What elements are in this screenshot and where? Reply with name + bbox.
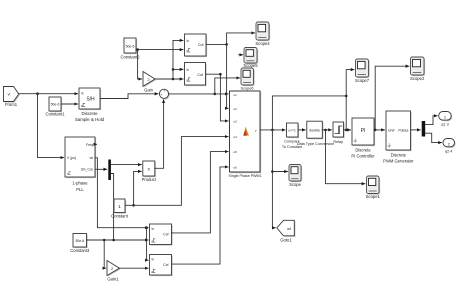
svg-text:Scope4: Scope4 bbox=[255, 41, 270, 46]
node junction at lower Cuf In level bbox=[172, 68, 175, 71]
node junction to Scope7 bbox=[345, 129, 348, 132]
wire upper Cuf out to Scope4 and down to port2 bbox=[206, 33, 255, 45]
svg-text:Pulses: Pulses bbox=[398, 128, 408, 132]
wire junction up to upper Cuf In bbox=[173, 40, 183, 79]
scope Scope2 bbox=[410, 57, 425, 81]
svg-text:Product: Product bbox=[142, 177, 157, 182]
scope Scope1 bbox=[366, 176, 381, 199]
subsystem Cu3 bbox=[150, 224, 173, 246]
svg-text:Data Type Conversion: Data Type Conversion bbox=[297, 142, 335, 146]
block Discrete PI Controller bbox=[351, 118, 375, 159]
subsystem Cuf lower bbox=[185, 63, 207, 87]
wire PLL Sin_Cos to Demux bbox=[95, 168, 107, 170]
wire Constant1 to S/H lower port bbox=[61, 103, 78, 105]
wire junction up to Product in2 bbox=[134, 171, 142, 205]
svg-text:Scope7: Scope7 bbox=[355, 78, 370, 83]
block Compare To Constant bbox=[282, 123, 303, 149]
svg-text:S/H: S/H bbox=[86, 97, 95, 103]
svg-text:Discrete: Discrete bbox=[391, 153, 407, 158]
outport q2 4 bbox=[443, 139, 456, 154]
svg-text:Cuf: Cuf bbox=[197, 73, 203, 77]
wire Constant out bbox=[125, 204, 134, 206]
svg-text:Constant3: Constant3 bbox=[70, 248, 90, 253]
svg-text:Gain1: Gain1 bbox=[107, 277, 119, 282]
svg-text:2: 2 bbox=[111, 267, 113, 271]
wire junction up to Scope7 bbox=[346, 70, 354, 130]
svg-text:u2: u2 bbox=[234, 107, 238, 111]
svg-text:Sin_Cos: Sin_Cos bbox=[81, 168, 93, 172]
svg-text:1-phase: 1-phase bbox=[72, 181, 88, 186]
node junction gain wire bbox=[172, 78, 175, 81]
svg-text:In: In bbox=[152, 258, 155, 262]
svg-text:From1: From1 bbox=[5, 102, 18, 107]
constant Constant (1) bbox=[111, 199, 129, 219]
wire Compare to Data Type Conversion bbox=[298, 129, 305, 131]
svg-text:Scope1: Scope1 bbox=[366, 194, 381, 199]
block Discrete PWM Generator bbox=[383, 111, 414, 164]
wire MATLAB Function out to Compare To Constant bbox=[260, 129, 285, 131]
wire Constant3 to Cu3 lower port bbox=[87, 239, 149, 241]
wire Relay to PI bbox=[344, 129, 351, 131]
svg-text:Constant: Constant bbox=[111, 214, 129, 219]
wire Demux out2 down bbox=[111, 174, 114, 240]
wire Gain1 to Cu4 lower port bbox=[120, 267, 149, 269]
node junction constant wire bbox=[132, 204, 135, 207]
svg-text:Discrete: Discrete bbox=[81, 111, 98, 116]
wire junction up to Scope6 bbox=[215, 78, 240, 94]
block 1-phase PLL bbox=[65, 137, 96, 192]
wire junction down to PLL input bbox=[38, 94, 64, 158]
wire stub PLL Freq out bbox=[95, 143, 97, 145]
svg-text:Scope2: Scope2 bbox=[410, 76, 425, 81]
svg-text:V (pu): V (pu) bbox=[67, 156, 76, 160]
wire Constant2 to upper Cuf block lower port bbox=[136, 49, 183, 51]
constant Constant1 bbox=[45, 97, 65, 117]
scope Scope mid bbox=[289, 165, 302, 187]
svg-text:Scope6: Scope6 bbox=[241, 86, 254, 90]
svg-text:Cuf: Cuf bbox=[198, 43, 204, 47]
svg-text:Scope: Scope bbox=[289, 182, 302, 187]
svg-text:1: 1 bbox=[118, 204, 121, 209]
svg-text:+: + bbox=[164, 89, 166, 93]
wire stub into Scope5 bbox=[239, 54, 243, 56]
svg-text:Cvf: Cvf bbox=[163, 232, 168, 236]
svg-text:In: In bbox=[152, 227, 155, 231]
wire From1 to S/H bbox=[19, 93, 78, 95]
node junction wt wire bbox=[145, 226, 148, 229]
node junction lower Cuf out bbox=[219, 73, 222, 76]
wire vertical bus x272 down to Goto1 bbox=[272, 130, 275, 228]
node junction scope tap bbox=[271, 170, 274, 173]
svg-text:Constant1: Constant1 bbox=[45, 112, 65, 117]
svg-text:Cvf: Cvf bbox=[163, 263, 168, 267]
wire Product out up to Sum bbox=[155, 100, 164, 169]
svg-text:+: + bbox=[160, 93, 162, 97]
sum Add bbox=[159, 89, 169, 99]
node junction on function output bbox=[271, 129, 274, 132]
svg-text:Single Phase PWM1: Single Phase PWM1 bbox=[229, 174, 262, 178]
MATLAB logo icon bbox=[243, 127, 249, 136]
wire junction down to Scope1 bbox=[326, 130, 365, 184]
svg-text:wt: wt bbox=[90, 156, 93, 160]
svg-text:Gain: Gain bbox=[144, 88, 154, 93]
svg-text:u3: u3 bbox=[234, 120, 238, 124]
wire Demux2 to Out2 bbox=[425, 133, 441, 142]
wire Demux out1 to Product bbox=[111, 164, 141, 166]
wire junction right and up to MATLAB Function port 4 bbox=[134, 137, 229, 206]
wire junction to Scope (mid) bbox=[272, 171, 287, 173]
svg-text:u1: u1 bbox=[234, 93, 238, 97]
wire junction down to Gain1 bbox=[104, 240, 105, 268]
gain Gain1 bbox=[107, 261, 121, 282]
outport q1 q3 bbox=[439, 112, 453, 127]
svg-text:50e-6: 50e-6 bbox=[75, 239, 84, 243]
svg-text:In: In bbox=[187, 39, 190, 43]
wire junction down to MATLAB Function port 2 bbox=[227, 44, 229, 108]
product Product bbox=[142, 161, 157, 182]
wire Cu4 out up to MATLAB Function port 6 bbox=[172, 167, 229, 264]
svg-text:u5: u5 bbox=[234, 150, 238, 154]
wire junction down to Gain bbox=[138, 50, 142, 79]
subsystem Cu4 bbox=[150, 255, 173, 277]
node junction to Scope1 bbox=[324, 129, 327, 132]
wire PLL wt down to Cu3 In bbox=[95, 158, 148, 228]
wire Data Type Conversion to Relay bbox=[322, 129, 331, 131]
block MATLAB Function (tall) bbox=[229, 91, 262, 178]
wire junction down to Cu4 In bbox=[147, 228, 149, 261]
svg-text:2: 2 bbox=[148, 78, 150, 82]
node junction on From1 wire bbox=[36, 92, 39, 95]
svg-text:In: In bbox=[187, 68, 190, 72]
constant Constant3 bbox=[70, 234, 90, 254]
node junction on sum output bbox=[214, 93, 217, 96]
svg-text:u4: u4 bbox=[234, 135, 238, 139]
wire PI to PWM Generator bbox=[374, 129, 385, 131]
wire Gain out to lower Cuf bottom port bbox=[155, 78, 183, 80]
subsystem Cuf upper bbox=[185, 34, 208, 57]
svg-text:q2 4: q2 4 bbox=[445, 149, 452, 153]
From tag From1 bbox=[4, 87, 20, 108]
block Relay bbox=[333, 122, 345, 144]
svg-text:u<=1: u<=1 bbox=[289, 129, 296, 133]
svg-text:u6: u6 bbox=[234, 166, 238, 170]
svg-text:Sample & Hold: Sample & Hold bbox=[75, 117, 105, 122]
wire Sum out to MATLAB Function port 1 bbox=[169, 93, 229, 95]
svg-text:Uref: Uref bbox=[388, 128, 394, 132]
goto Goto1 wt bbox=[277, 220, 296, 242]
wire S/H out to Sum bbox=[100, 94, 158, 99]
demux Demux1 bbox=[108, 160, 111, 181]
gain Gain bbox=[143, 72, 156, 93]
svg-text:vt: vt bbox=[8, 93, 11, 97]
svg-text:Freq: Freq bbox=[86, 143, 93, 147]
svg-text:PI Controller: PI Controller bbox=[351, 154, 375, 159]
wire lower Cuf out down to MATLAB Function port 3 bbox=[206, 74, 229, 121]
svg-text:double: double bbox=[309, 129, 320, 133]
svg-text:Scope5: Scope5 bbox=[243, 63, 258, 68]
block S/H Discrete Sample and Hold bbox=[75, 88, 105, 122]
wire Demux2 to Out1 bbox=[425, 116, 437, 125]
wire junction to lower Cuf In bbox=[173, 68, 183, 70]
svg-text:50e-6: 50e-6 bbox=[51, 103, 60, 107]
node junction on Constant2 wire bbox=[136, 48, 139, 51]
block Data Type Conversion bbox=[297, 121, 335, 146]
node junction to Gain1 bbox=[103, 239, 106, 242]
wire PWM to Demux2 bbox=[411, 129, 421, 131]
scope Scope4 bbox=[255, 22, 270, 46]
constant Constant2 bbox=[120, 38, 140, 60]
svg-text:PLL: PLL bbox=[76, 187, 84, 192]
svg-text:PI: PI bbox=[361, 128, 366, 134]
svg-text:Relay: Relay bbox=[333, 140, 343, 144]
wire vertical bus x272 up and right bbox=[272, 96, 346, 130]
svg-text:Discrete: Discrete bbox=[355, 148, 371, 153]
scope Scope6 bbox=[241, 68, 255, 90]
scope Scope7 bbox=[355, 59, 370, 83]
svg-text:50e-6: 50e-6 bbox=[126, 45, 135, 49]
svg-text:q1 3: q1 3 bbox=[441, 123, 448, 127]
scope Scope5 bbox=[243, 48, 258, 69]
node junction bus meets scope7 drop bbox=[345, 95, 348, 98]
demux Demux2 bbox=[422, 121, 426, 137]
node junction demux2 line lands bbox=[112, 239, 115, 242]
node junction upper Cuf out bbox=[225, 43, 228, 46]
svg-text:PWM Generator: PWM Generator bbox=[383, 159, 414, 164]
node junction to Scope2 bbox=[374, 129, 377, 132]
svg-text:In: In bbox=[81, 92, 84, 96]
wire Cu3 out up to MATLAB Function port 5 bbox=[172, 152, 229, 233]
wire junction up to Scope2 bbox=[375, 66, 409, 130]
svg-text:Goto1: Goto1 bbox=[280, 238, 292, 243]
